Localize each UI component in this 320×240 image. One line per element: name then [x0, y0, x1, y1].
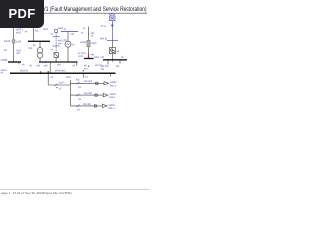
svg-text:x/x: x/x: [78, 87, 82, 89]
svg-text:x4: x4: [121, 57, 124, 59]
svg-text:x4x: x4x: [37, 65, 41, 67]
svg-text:x4x: x4x: [16, 53, 20, 55]
svg-text:x4x4 x4x2: x4x4 x4x2: [55, 70, 66, 72]
svg-text:4x2: 4x2: [76, 80, 80, 82]
svg-text:Sep 30, 2021: Sep 30, 2021: [25, 191, 43, 195]
svg-text:x4x: x4x: [58, 43, 62, 45]
svg-text:4x: 4x: [33, 45, 36, 47]
svg-text:x4x2: x4x2: [43, 29, 49, 31]
svg-text:x4: x4: [84, 66, 87, 68]
svg-text:x4x2: x4x2: [16, 32, 22, 34]
svg-text:x4x 4x2: x4x 4x2: [101, 66, 110, 68]
svg-text:4x: 4x: [64, 29, 67, 31]
svg-text:x4x 4x2: x4x 4x2: [84, 81, 93, 83]
svg-text:4x: 4x: [73, 66, 76, 68]
svg-text:4x4 xTR: 4x4 xTR: [58, 41, 67, 43]
svg-text:x4x 4x: x4x 4x: [95, 65, 102, 67]
svg-text:Rx4 5x: Rx4 5x: [100, 39, 108, 41]
svg-text:x4: x4: [117, 51, 120, 53]
svg-text:x1x2x: x1x2x: [91, 43, 98, 45]
svg-text:xxx4: xxx4: [78, 56, 83, 58]
svg-text:4xL-x: 4xL-x: [109, 96, 116, 99]
svg-text:x4: x4: [1, 72, 4, 74]
svg-text:07.01.17: 07.01.17: [13, 191, 25, 195]
svg-text:x/x: x/x: [77, 110, 81, 112]
svg-text:x4x4x: x4x4x: [80, 42, 87, 44]
svg-text:1xx4: 1xx4: [59, 83, 65, 85]
svg-text:Project File: Fix(TMF): Project File: Fix(TMF): [43, 191, 72, 195]
svg-text:4x2x4: 4x2x4: [4, 41, 11, 43]
svg-text:4xPx4: 4xPx4: [109, 14, 117, 17]
svg-text:x4: x4: [22, 64, 25, 66]
svg-text:x4x: x4x: [84, 68, 88, 70]
svg-text:x2x: x2x: [101, 69, 105, 71]
svg-text:x4: x4: [25, 32, 28, 34]
svg-text:x4x: x4x: [116, 66, 120, 68]
svg-text:x4x2: x4x2: [66, 77, 72, 79]
svg-text:xx: xx: [81, 32, 84, 34]
svg-text:x4: x4: [51, 77, 54, 79]
svg-text:x4x: x4x: [44, 65, 48, 67]
svg-text:4xL-x: 4xL-x: [108, 107, 115, 110]
svg-text:x2x: x2x: [29, 48, 33, 50]
svg-text:4xL: 4xL: [35, 30, 39, 32]
svg-text:xx: xx: [83, 28, 86, 30]
svg-text:4xL-x: 4xL-x: [110, 84, 117, 87]
svg-text:x4x2: x4x2: [94, 57, 100, 59]
svg-text:4x: 4x: [30, 66, 33, 68]
svg-text:x4x: x4x: [57, 65, 61, 67]
svg-text:x4: x4: [51, 34, 54, 36]
svg-text:x4: x4: [51, 50, 54, 52]
svg-text:x2 xx: x2 xx: [101, 26, 107, 28]
svg-text:x4x2 4x: x4x2 4x: [20, 71, 29, 73]
svg-text:x2: x2: [91, 35, 94, 37]
svg-text:x4x 4x2: x4x 4x2: [83, 104, 92, 106]
svg-text:x2: x2: [59, 88, 62, 90]
svg-text:Lx04: Lx04: [16, 41, 22, 43]
svg-text:x4x 4x2: x4x 4x2: [84, 93, 93, 95]
svg-text:x1TR4: x1TR4: [1, 60, 8, 62]
svg-text:x4x: x4x: [101, 57, 105, 59]
svg-text:x4x2: x4x2: [42, 62, 48, 64]
svg-text:4xTR-1: 4xTR-1: [16, 30, 24, 32]
svg-text:V1 (Fault Management and Servi: V1 (Fault Management and Service Restora…: [43, 7, 147, 13]
svg-text:x4x: x4x: [71, 34, 75, 36]
svg-text:x1x: x1x: [3, 50, 7, 52]
svg-text:page 1: page 1: [1, 191, 11, 195]
svg-text:x2: x2: [72, 44, 75, 46]
svg-text:x/x: x/x: [78, 99, 82, 101]
svg-text:x.x: x.x: [85, 76, 89, 78]
